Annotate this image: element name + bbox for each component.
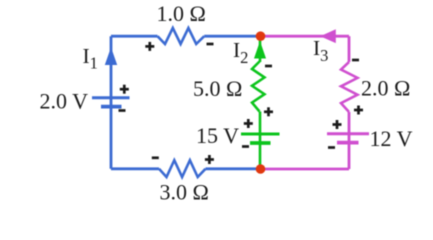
wire top-right (magenta, top junction to right corner) — [261, 35, 350, 38]
wire middle branch upper (green) — [259, 39, 262, 62]
svg-text:15 V: 15 V — [196, 123, 239, 148]
wire bottom-left (blue) — [111, 167, 159, 170]
current arrow I1 (blue, pointing up) — [105, 47, 117, 65]
battery 2.0 V short plate (-) — [101, 105, 122, 109]
svg-text:5.0 Ω: 5.0 Ω — [193, 76, 242, 101]
svg-text:I2: I2 — [233, 38, 248, 67]
wire right vertical lower (magenta, through battery to bottom corner) — [348, 112, 351, 169]
node junction bottom (red dot) — [256, 164, 266, 174]
wire right vertical upper (magenta) — [348, 36, 351, 62]
svg-text:3.0 Ω: 3.0 Ω — [160, 179, 209, 204]
resistor 2.0 ohm (right, magenta vertical zigzag) — [341, 62, 358, 112]
wire top-middle (blue, resistor to top junction) — [204, 35, 260, 38]
resistor 1.0 ohm (top, blue zigzag) — [158, 28, 205, 44]
svg-text:2.0 V: 2.0 V — [40, 89, 89, 114]
battery 15 V long plate (+) — [241, 133, 280, 136]
polarity - (3.0 ohm left) — [152, 156, 159, 159]
svg-text:I1: I1 — [83, 44, 98, 72]
wire bottom-right (magenta) — [261, 168, 350, 171]
wire bottom-middle (blue, resistor to bottom junction) — [206, 167, 261, 170]
battery 15 V short plate (-) — [250, 141, 271, 145]
polarity - (15 V battery) — [242, 145, 249, 148]
polarity - (1.0 ohm right) — [207, 43, 214, 46]
polarity + (2.0 ohm bottom) — [354, 106, 363, 115]
polarity - (2.0 V battery) — [119, 109, 126, 112]
polarity - (5.0 ohm top) — [265, 65, 272, 68]
polarity - (12 V battery) — [328, 146, 335, 149]
battery 12 V short plate (-) — [337, 141, 359, 145]
battery 12 V long plate (+) — [327, 132, 369, 135]
wire middle branch lower (green, through battery to bottom junction) — [259, 112, 262, 170]
current arrow I2 (green, pointing up at top of middle branch) — [254, 41, 266, 59]
polarity + (15 V battery) — [244, 119, 253, 128]
node junction top (red dot) — [256, 31, 266, 41]
svg-text:2.0 Ω: 2.0 Ω — [361, 76, 410, 101]
polarity - (2.0 ohm top) — [352, 59, 359, 62]
polarity + (5.0 ohm bottom) — [264, 107, 273, 116]
polarity + (3.0 ohm right) — [205, 155, 214, 164]
svg-text:1.0 Ω: 1.0 Ω — [157, 1, 206, 26]
wire top-left (blue, node A to 1.0 ohm resistor) — [111, 35, 158, 38]
polarity + (2.0 V battery) — [120, 85, 129, 94]
polarity + (1.0 ohm left) — [145, 42, 154, 51]
resistor 3.0 ohm (bottom, blue zigzag) — [159, 160, 206, 177]
battery 2.0 V long plate (+) — [92, 96, 130, 99]
polarity + (12 V battery) — [333, 120, 342, 129]
resistor 5.0 ohm (middle, green vertical zigzag) — [252, 62, 265, 112]
wire left vertical (blue) — [110, 36, 113, 169]
current arrow I3 (magenta, pointing left) — [320, 29, 336, 43]
svg-text:12 V: 12 V — [370, 126, 413, 151]
svg-text:I3: I3 — [313, 36, 328, 65]
